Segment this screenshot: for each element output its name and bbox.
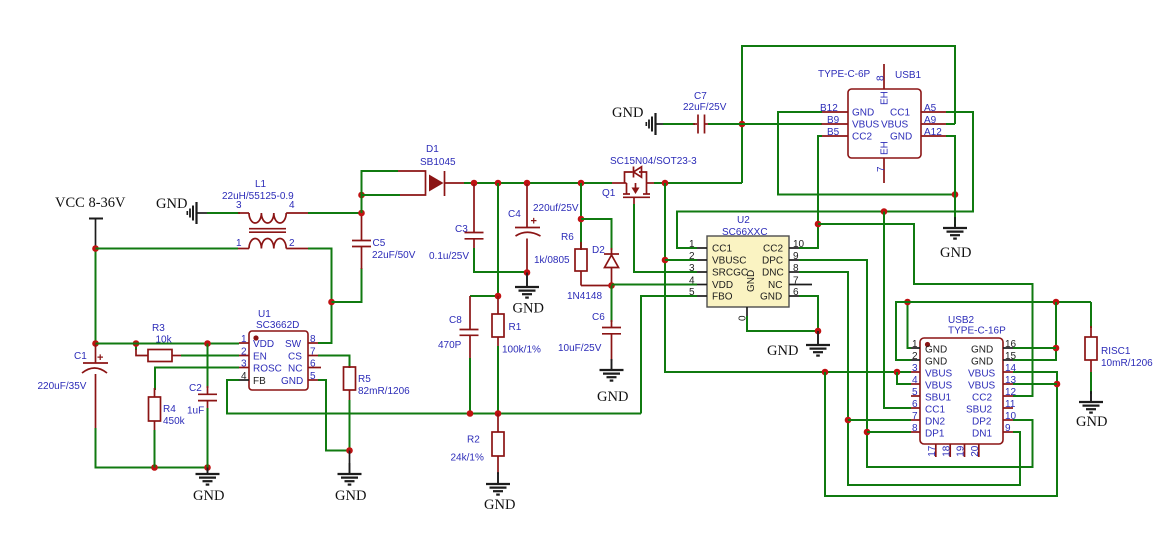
- svg-text:11: 11: [1005, 399, 1016, 410]
- capacitor C5: [352, 214, 416, 269]
- svg-text:L1: L1: [255, 179, 267, 190]
- wire D1 input loop bottom edge: [362, 194, 401, 196]
- wire DN2 stub: [848, 419, 911, 421]
- node GND/RISC1 junction: [1053, 299, 1060, 306]
- svg-text:GND: GND: [335, 488, 366, 504]
- node R1 bottom junction: [495, 410, 502, 417]
- svg-text:NC: NC: [768, 280, 782, 291]
- svg-text:4: 4: [912, 375, 918, 386]
- svg-text:VBUS: VBUS: [968, 369, 996, 380]
- wire A5 CC1 net: [677, 112, 973, 248]
- wire B12 GND loop: [778, 112, 955, 195]
- svg-text:4: 4: [241, 371, 247, 382]
- resistor R5: [344, 366, 411, 451]
- svg-text:CS: CS: [288, 352, 302, 363]
- node DN2 junction: [845, 417, 852, 424]
- wire U2 FBO to FB net: [641, 296, 697, 414]
- svg-text:1uF: 1uF: [187, 406, 204, 417]
- resistor R1: [492, 296, 541, 414]
- svg-text:DP1: DP1: [925, 429, 945, 440]
- svg-text:12: 12: [1005, 387, 1017, 398]
- svg-text:ROSC: ROSC: [253, 364, 282, 375]
- svg-text:CC1: CC1: [712, 244, 732, 255]
- wire U1 GND pin5 down: [318, 380, 348, 451]
- capacitor C2: [187, 344, 217, 468]
- inductor L1 (coupled, 22uH/55125-0.9): [222, 179, 308, 249]
- capacitor C3: [429, 184, 484, 262]
- svg-text:EH: EH: [880, 91, 891, 105]
- svg-text:GND: GND: [597, 389, 628, 405]
- svg-text:R1: R1: [509, 322, 522, 333]
- svg-text:GND: GND: [746, 270, 757, 292]
- svg-text:USB2: USB2: [948, 315, 975, 326]
- svg-text:SBU1: SBU1: [925, 393, 952, 404]
- wire ROSC net to R4: [155, 368, 239, 391]
- svg-text:C5: C5: [373, 238, 386, 249]
- svg-text:0.1u/25V: 0.1u/25V: [429, 251, 469, 262]
- wire U2 DNC to USB2: [799, 272, 1020, 485]
- node CC1 branch junction: [881, 208, 888, 215]
- wire VCC to L1 pin1: [96, 248, 239, 250]
- wire U2 DPC to USB2: [799, 260, 1033, 467]
- svg-text:VDD: VDD: [712, 280, 733, 291]
- node VDD junction on left rail: [92, 340, 99, 347]
- svg-text:D2: D2: [592, 245, 605, 256]
- svg-text:A9: A9: [924, 115, 937, 126]
- svg-text:4: 4: [289, 200, 295, 211]
- wire C1 bottom to GND rail: [96, 428, 209, 468]
- svg-text:CC2: CC2: [763, 244, 783, 255]
- svg-text:SC3662D: SC3662D: [256, 320, 299, 331]
- wire branch to U2 VBUSC: [665, 259, 697, 261]
- node L1-D1-C5 junction: [358, 210, 365, 217]
- svg-text:RISC1: RISC1: [1101, 346, 1131, 357]
- diode D2 1N4148: [567, 245, 619, 302]
- node USB2 GND junction: [904, 299, 911, 306]
- resistor R6: [534, 183, 612, 286]
- svg-text:U1: U1: [258, 309, 271, 320]
- wire Q1 drain to VBUS corner: [654, 182, 742, 184]
- wire U2 pin0 to ground: [747, 316, 818, 331]
- wire R6 top to D2 top: [581, 219, 612, 250]
- svg-text:GND: GND: [1076, 414, 1107, 430]
- svg-text:R4: R4: [163, 404, 176, 415]
- svg-text:2: 2: [689, 251, 695, 262]
- ground GND (sideways, at C7): [612, 105, 664, 135]
- node U2 ground junction: [815, 328, 822, 335]
- wire D2 node to U2 VDD: [612, 284, 698, 286]
- svg-text:17: 17: [927, 445, 938, 457]
- wire CC1 down to USB2 pin6: [884, 212, 911, 409]
- wire L1 pin2 to U1 SW: [308, 249, 332, 344]
- svg-text:10: 10: [1005, 411, 1017, 422]
- resistor R4: [149, 388, 186, 468]
- svg-text:R3: R3: [152, 323, 165, 334]
- node C2 top junction: [204, 340, 211, 347]
- svg-text:GND: GND: [760, 292, 782, 303]
- svg-text:1N4148: 1N4148: [567, 291, 602, 302]
- svg-text:R6: R6: [561, 232, 574, 243]
- node pin16 junction: [1053, 345, 1060, 352]
- svg-text:EH: EH: [880, 141, 891, 155]
- node C7/B9 junction: [739, 121, 746, 128]
- svg-text:GND: GND: [193, 488, 224, 504]
- svg-text:DN1: DN1: [972, 429, 992, 440]
- node D2/C6 junction: [608, 282, 615, 289]
- wire R3 right to EN pin: [181, 355, 239, 357]
- wire pin16 stub: [1013, 347, 1056, 349]
- svg-text:3: 3: [912, 363, 918, 374]
- svg-text:USB1: USB1: [895, 70, 922, 81]
- svg-text:C7: C7: [694, 91, 707, 102]
- ground GND (under R5): [335, 451, 366, 505]
- capacitor C6: [558, 286, 621, 362]
- wire GND to L1 pin3: [207, 212, 240, 214]
- svg-text:A5: A5: [924, 103, 937, 114]
- svg-text:GND: GND: [852, 108, 874, 119]
- node C4/GND junction: [524, 269, 531, 276]
- svg-text:EN: EN: [253, 352, 267, 363]
- svg-text:TYPE-C-16P: TYPE-C-16P: [948, 326, 1006, 337]
- svg-text:3: 3: [241, 359, 247, 370]
- wire Q1 gate to U2 SRCGC: [634, 204, 697, 272]
- svg-text:GND: GND: [156, 196, 187, 212]
- wire GND pins 16/15 branch: [1013, 302, 1056, 360]
- wire USB2 pin1 up: [908, 302, 912, 348]
- svg-text:+: +: [97, 352, 103, 364]
- resistor RISC1: [1085, 302, 1153, 394]
- node rail R1 branch junction: [495, 180, 502, 187]
- node R1/C8 top junction: [495, 293, 502, 300]
- capacitor C4: [508, 184, 579, 272]
- svg-text:5: 5: [912, 387, 918, 398]
- transistor Q1 SC15N04/SOT23-3: [602, 156, 697, 206]
- wire A9 to VBUS top run: [946, 123, 955, 125]
- svg-text:GND: GND: [940, 245, 971, 261]
- svg-text:GND: GND: [971, 345, 993, 356]
- svg-text:82mR/1206: 82mR/1206: [358, 386, 410, 397]
- svg-text:5: 5: [310, 371, 316, 382]
- svg-text:DPC: DPC: [762, 256, 783, 267]
- svg-text:1k/0805: 1k/0805: [534, 255, 570, 266]
- connector USB2 TYPE-C-16P: [911, 315, 1017, 457]
- node VBUS feed branch junction: [822, 369, 829, 376]
- wire D1 input loop: [362, 171, 399, 213]
- svg-text:7: 7: [793, 276, 799, 287]
- ground GND (under USB1): [940, 217, 971, 261]
- svg-text:GND: GND: [925, 357, 947, 368]
- wire rail branch down to R1/C8: [470, 183, 498, 296]
- svg-text:7: 7: [876, 166, 887, 172]
- svg-text:22uF/25V: 22uF/25V: [683, 102, 727, 113]
- svg-text:U2: U2: [737, 215, 750, 226]
- svg-text:R2: R2: [467, 435, 480, 446]
- wire L1 pin4 to D1/C5 node: [308, 212, 362, 214]
- wire VDD net (pin1 row): [96, 343, 240, 345]
- svg-text:B9: B9: [827, 115, 840, 126]
- svg-text:20: 20: [970, 445, 981, 457]
- svg-text:VDD: VDD: [253, 339, 274, 350]
- svg-text:C6: C6: [592, 312, 605, 323]
- connector USB1 TYPE-C-6P: [818, 64, 948, 183]
- IC U1 SC3662D: [239, 309, 321, 390]
- node CC2 branch junction: [815, 221, 822, 228]
- svg-text:GND: GND: [484, 497, 515, 513]
- wire VBUS pin13 stub: [1013, 383, 1057, 385]
- ground GND (under R2): [484, 472, 515, 513]
- svg-text:VBUS: VBUS: [925, 381, 953, 392]
- wire VBUS feed down-right: [665, 183, 911, 372]
- svg-text:D1: D1: [426, 144, 439, 155]
- svg-text:2: 2: [912, 351, 918, 362]
- svg-text:3: 3: [236, 200, 242, 211]
- diode D1 SB1045: [398, 144, 466, 196]
- svg-text:VBUSC: VBUSC: [712, 256, 746, 267]
- svg-text:VBUS: VBUS: [881, 120, 909, 131]
- ground GND (under U2): [767, 331, 830, 359]
- capacitor C8: [438, 296, 479, 414]
- svg-text:1: 1: [912, 339, 918, 350]
- ground GND (left bottom, under C2): [193, 463, 224, 504]
- svg-text:GND: GND: [971, 357, 993, 368]
- svg-text:13: 13: [1005, 375, 1017, 386]
- svg-text:4: 4: [689, 276, 695, 287]
- svg-text:8: 8: [876, 75, 887, 81]
- capacitor C7: [663, 91, 727, 134]
- node Q1 output junction: [662, 180, 669, 187]
- ground GND (sideways, at L1 pin3): [156, 196, 207, 224]
- svg-text:470P: 470P: [438, 340, 462, 351]
- svg-text:CC2: CC2: [852, 132, 872, 143]
- node rail C4 junction: [524, 180, 531, 187]
- svg-text:FB: FB: [253, 376, 266, 387]
- svg-text:TYPE-C-6P: TYPE-C-6P: [818, 69, 871, 80]
- svg-text:SB1045: SB1045: [420, 157, 456, 168]
- svg-text:SBU2: SBU2: [966, 405, 993, 416]
- node R4 bottom junction: [151, 464, 158, 471]
- svg-text:15: 15: [1005, 351, 1017, 362]
- svg-text:CC1: CC1: [925, 405, 945, 416]
- node R3 left junction: [133, 340, 140, 347]
- resistor R3: [136, 323, 183, 362]
- svg-text:22uF/50V: 22uF/50V: [372, 250, 416, 261]
- svg-text:2: 2: [241, 347, 247, 358]
- svg-text:C1: C1: [74, 351, 87, 362]
- svg-text:8: 8: [912, 423, 918, 434]
- wire A12 to GND: [946, 136, 955, 226]
- svg-text:SW: SW: [285, 339, 302, 350]
- node C2 bottom junction: [204, 464, 211, 471]
- wire CC2 across to USB2 pin12: [818, 224, 1033, 396]
- node U2 VBUSC branch junction: [662, 257, 669, 264]
- svg-text:19: 19: [956, 445, 967, 457]
- svg-text:10uF/25V: 10uF/25V: [558, 343, 602, 354]
- svg-text:NC: NC: [288, 364, 302, 375]
- ground GND (under C4): [513, 273, 544, 317]
- node USB2 pins3/4 junction: [894, 369, 901, 376]
- svg-text:C4: C4: [508, 209, 521, 220]
- svg-text:C3: C3: [455, 224, 468, 235]
- svg-text:Q1: Q1: [602, 188, 616, 199]
- svg-text:1: 1: [236, 238, 242, 249]
- wire D1 cathode to rail: [464, 182, 612, 184]
- svg-text:VBUS: VBUS: [925, 369, 953, 380]
- wire USB2 pin2 up: [896, 302, 1091, 360]
- svg-text:DN2: DN2: [925, 417, 945, 428]
- svg-text:GND: GND: [281, 376, 303, 387]
- capacitor C1: [38, 344, 109, 431]
- wire U1 CS pin7 to R5: [318, 356, 350, 369]
- wire U2 GND pin6 down: [799, 296, 818, 331]
- svg-text:3: 3: [689, 263, 695, 274]
- ground GND (under C6): [597, 359, 628, 405]
- wire VCC vertical left rail: [95, 248, 97, 344]
- IC U2 SC66XXC: [689, 215, 812, 321]
- node rail R6 junction: [578, 180, 585, 187]
- svg-text:9: 9: [793, 251, 799, 262]
- svg-text:450k: 450k: [163, 416, 186, 427]
- svg-text:B12: B12: [820, 103, 838, 114]
- svg-text:GND: GND: [767, 343, 798, 359]
- wire C7 to B9: [708, 123, 822, 125]
- svg-text:100k/1%: 100k/1%: [502, 345, 541, 356]
- svg-text:14: 14: [1005, 363, 1017, 374]
- svg-text:GND: GND: [612, 105, 643, 121]
- node C8 bottom junction: [467, 410, 474, 417]
- svg-text:GND: GND: [513, 301, 544, 317]
- svg-text:7: 7: [310, 347, 316, 358]
- wire FB net from U1 pin4: [227, 380, 641, 414]
- svg-text:6: 6: [912, 399, 918, 410]
- wire VBUS to right side pins: [825, 372, 1057, 496]
- node D1 loop lower-left junction: [358, 192, 365, 199]
- wire C3 bottom to C4 bottom: [474, 248, 527, 272]
- svg-text:10mR/1206: 10mR/1206: [1101, 358, 1153, 369]
- svg-text:GND: GND: [890, 132, 912, 143]
- svg-text:+: +: [531, 216, 537, 228]
- node R6/D2 top junction: [578, 216, 585, 223]
- svg-text:DP2: DP2: [972, 417, 992, 428]
- node A12/GND junction: [952, 191, 959, 198]
- svg-text:220uF/35V: 220uF/35V: [38, 381, 87, 392]
- svg-text:C8: C8: [449, 315, 462, 326]
- ground GND (under RISC1): [1076, 391, 1107, 430]
- svg-text:CC1: CC1: [890, 108, 910, 119]
- svg-text:22uH/55125-0.9: 22uH/55125-0.9: [222, 191, 294, 202]
- svg-text:8: 8: [793, 263, 799, 274]
- node VBUS right pins junction: [1054, 381, 1061, 388]
- svg-text:18: 18: [941, 445, 952, 457]
- svg-text:B5: B5: [827, 127, 840, 138]
- svg-text:SC15N04/SOT23-3: SC15N04/SOT23-3: [610, 156, 697, 167]
- svg-text:8: 8: [310, 334, 316, 345]
- svg-text:2: 2: [289, 238, 295, 249]
- power flag VCC 8-36V: [55, 195, 126, 248]
- svg-text:9: 9: [1005, 423, 1011, 434]
- svg-text:SRCGC: SRCGC: [712, 268, 748, 279]
- svg-text:FBO: FBO: [712, 292, 733, 303]
- wire rail corner up to top run: [742, 46, 955, 183]
- node C5 bottom branch junction: [328, 299, 335, 306]
- svg-text:7: 7: [912, 411, 918, 422]
- svg-text:C2: C2: [189, 383, 202, 394]
- svg-text:VCC 8-36V: VCC 8-36V: [55, 195, 126, 211]
- wire B5 CC2 down: [799, 136, 822, 248]
- node rail C3 junction: [471, 180, 478, 187]
- svg-text:24k/1%: 24k/1%: [451, 453, 484, 464]
- svg-text:GND: GND: [925, 345, 947, 356]
- svg-text:1: 1: [241, 334, 247, 345]
- svg-text:6: 6: [310, 359, 316, 370]
- wire VBUS pin4 branch: [897, 372, 911, 384]
- svg-text:VBUS: VBUS: [852, 120, 880, 131]
- wire C5 bottom branch: [332, 268, 362, 302]
- svg-text:6: 6: [793, 287, 799, 298]
- resistor R2: [451, 414, 505, 475]
- svg-text:220uf/25V: 220uf/25V: [533, 203, 579, 214]
- node R5/GND junction: [346, 447, 353, 454]
- node VCC-L1 junction: [92, 245, 99, 252]
- svg-text:DNC: DNC: [762, 268, 784, 279]
- svg-text:16: 16: [1005, 339, 1017, 350]
- svg-text:CC2: CC2: [972, 393, 992, 404]
- svg-text:R5: R5: [358, 374, 371, 385]
- svg-text:VBUS: VBUS: [968, 381, 996, 392]
- wire DP1 stub: [867, 431, 911, 433]
- svg-text:A12: A12: [924, 127, 942, 138]
- node DP1 junction: [864, 429, 871, 436]
